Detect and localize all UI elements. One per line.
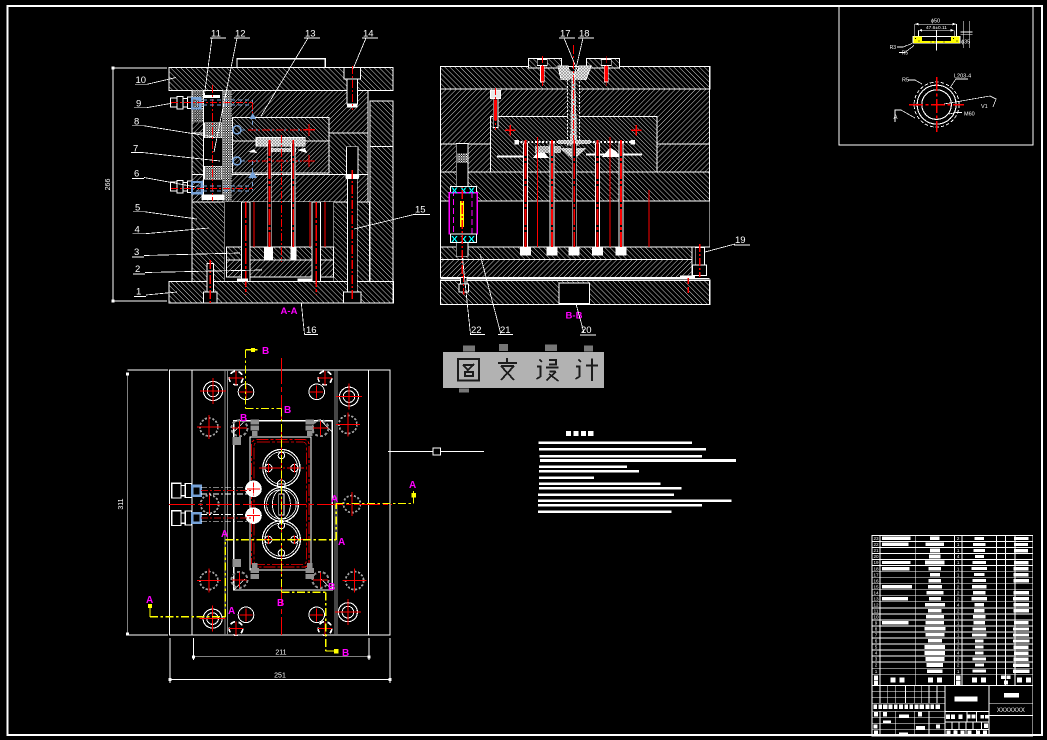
top boss xyxy=(237,59,325,68)
long side bolt xyxy=(344,147,361,303)
svg-text:1: 1 xyxy=(957,639,960,644)
sprue bushing xyxy=(568,45,580,205)
cavity pocket BB xyxy=(490,117,657,173)
watermark char wen xyxy=(498,358,517,380)
svg-text:2: 2 xyxy=(957,590,960,595)
left rail xyxy=(192,202,224,281)
support plate xyxy=(192,175,368,203)
dim 311 xyxy=(118,370,168,636)
molded part cavity xyxy=(193,91,308,154)
ring leaders xyxy=(894,74,997,123)
inner screw circles xyxy=(238,384,324,623)
support pillar right xyxy=(312,202,321,294)
cooling line cavity 1 xyxy=(233,124,315,136)
svg-text:A: A xyxy=(228,606,235,617)
callout 4 xyxy=(133,225,210,236)
svg-text:A: A xyxy=(331,494,338,505)
svg-text:2: 2 xyxy=(135,264,140,275)
svg-text:1: 1 xyxy=(957,548,960,553)
svg-text:2: 2 xyxy=(957,584,960,589)
svg-text:M60: M60 xyxy=(964,112,975,118)
plan red centerlines xyxy=(169,358,392,635)
dim phi50 xyxy=(915,19,957,37)
cavity cooling circuit xyxy=(250,437,311,570)
ejector retainer BB xyxy=(441,247,692,260)
bottom plate screw xyxy=(203,260,217,303)
callout 9 xyxy=(134,99,172,110)
ring screw left xyxy=(537,56,547,86)
gray hatched circles xyxy=(197,413,367,593)
plan inner vertical lines xyxy=(192,370,368,635)
svg-text:B: B xyxy=(342,648,349,659)
callout 11 xyxy=(204,29,226,99)
svg-text:3: 3 xyxy=(875,657,878,662)
callout 17 xyxy=(559,29,578,73)
svg-text:20: 20 xyxy=(873,554,879,559)
title block xyxy=(872,686,1033,737)
svg-text:1: 1 xyxy=(957,669,960,674)
svg-text:5: 5 xyxy=(875,645,878,650)
BOM table grid xyxy=(872,536,1033,686)
svg-text:R3: R3 xyxy=(890,45,897,51)
ring circles xyxy=(914,82,959,127)
cavity insert pocket xyxy=(233,118,330,142)
water channel dashed xyxy=(201,487,254,521)
right rail xyxy=(334,202,370,281)
core insert pocket xyxy=(233,141,330,173)
4-lobe screw circles xyxy=(229,371,332,636)
svg-text:ϕ35: ϕ35 xyxy=(961,40,970,46)
svg-text:A: A xyxy=(409,480,416,491)
svg-text:B: B xyxy=(284,405,291,416)
big circle middle xyxy=(264,487,298,521)
left small bolt BB xyxy=(459,274,469,295)
svg-text:13: 13 xyxy=(873,596,879,601)
callout 8 xyxy=(132,117,214,138)
svg-text:L203-4: L203-4 xyxy=(954,74,971,80)
callout 15 xyxy=(354,205,430,230)
callout 18 xyxy=(574,29,594,78)
dim 47.6 xyxy=(919,25,955,36)
detail view box xyxy=(839,7,1033,146)
svg-text:19: 19 xyxy=(735,235,746,246)
svg-text:15: 15 xyxy=(415,205,426,216)
locating ring left xyxy=(528,58,561,68)
svg-text:8: 8 xyxy=(875,627,878,632)
BOM header row xyxy=(874,675,1031,685)
svg-text:1: 1 xyxy=(957,572,960,577)
svg-text:4: 4 xyxy=(957,651,960,656)
title block texts xyxy=(873,693,1019,736)
svg-text:17: 17 xyxy=(873,572,879,577)
bottom clamp plate BB xyxy=(441,280,710,304)
A plate xyxy=(192,91,368,134)
ring screw right xyxy=(601,56,611,86)
dim 211 xyxy=(192,638,371,660)
ejector retainer plate xyxy=(227,247,334,260)
big circle bottom xyxy=(259,521,304,559)
callout 2 xyxy=(133,264,262,275)
plan gray double lines xyxy=(225,370,337,635)
plan water fittings xyxy=(172,483,201,525)
ejector pin 2 xyxy=(290,140,296,260)
support column above cylinder xyxy=(456,144,468,187)
svg-text:1: 1 xyxy=(957,621,960,626)
callout 14 xyxy=(353,29,378,70)
callout 12 xyxy=(214,29,250,153)
label B-B xyxy=(566,311,583,322)
svg-text:266: 266 xyxy=(105,179,112,191)
top plate screw xyxy=(344,66,361,110)
locating ring section (yellow) xyxy=(913,30,960,51)
svg-text:14: 14 xyxy=(873,590,879,595)
svg-text:2: 2 xyxy=(957,536,960,541)
top clamp plate xyxy=(169,67,393,90)
svg-text:2: 2 xyxy=(957,645,960,650)
svg-text:B: B xyxy=(262,346,269,357)
callout 13 xyxy=(261,29,320,117)
svg-text:251: 251 xyxy=(274,672,286,679)
label A-A xyxy=(281,306,298,317)
svg-text:1: 1 xyxy=(875,669,878,674)
svg-text:19: 19 xyxy=(873,560,879,565)
ring crosshair red xyxy=(909,77,964,132)
dim 251 xyxy=(169,638,392,683)
svg-text:2: 2 xyxy=(957,596,960,601)
svg-text:A: A xyxy=(146,595,153,606)
watermark char tu xyxy=(458,359,479,381)
bottom plate pads xyxy=(237,278,312,281)
gate area speckle xyxy=(497,140,642,160)
svg-text:ϕ50: ϕ50 xyxy=(931,19,940,25)
svg-text:21: 21 xyxy=(873,548,879,553)
callout 22 xyxy=(463,258,486,336)
B plate BB xyxy=(441,144,710,172)
top clamp plate BB xyxy=(441,67,710,89)
ejector pin 1 xyxy=(264,140,273,260)
callout 1 xyxy=(134,287,177,298)
callout 6 xyxy=(132,169,196,188)
svg-text:2: 2 xyxy=(957,609,960,614)
cavity insert rect xyxy=(234,421,332,590)
svg-text:R5: R5 xyxy=(902,78,909,84)
ejector base BB xyxy=(441,259,692,277)
callout 16 xyxy=(301,303,318,336)
support cylinder magenta xyxy=(449,145,477,283)
watermark char ji xyxy=(576,359,599,382)
ejector base plate xyxy=(227,260,334,277)
support pillar left xyxy=(242,202,251,294)
dim 266 xyxy=(105,67,167,303)
svg-text:22: 22 xyxy=(873,542,879,547)
callout 21 xyxy=(480,254,513,336)
tech requirements heading xyxy=(566,431,593,436)
svg-text:1: 1 xyxy=(957,615,960,620)
svg-text:18: 18 xyxy=(873,566,879,571)
B plate xyxy=(192,133,368,175)
callout 7 xyxy=(131,144,220,162)
svg-text:9: 9 xyxy=(875,621,878,626)
svg-text:211: 211 xyxy=(275,650,286,657)
svg-text:B: B xyxy=(328,582,335,593)
svg-text:23: 23 xyxy=(873,536,879,541)
svg-text:6: 6 xyxy=(875,639,878,644)
bottom clamp plate xyxy=(169,281,393,303)
left water fitting 1 xyxy=(170,97,200,109)
sprue center line xyxy=(281,135,283,262)
watermark char she xyxy=(537,360,559,382)
svg-text:A-A: A-A xyxy=(281,306,298,317)
callout 20 xyxy=(576,304,596,336)
svg-text:A: A xyxy=(338,537,345,548)
callout 3 xyxy=(132,247,240,258)
svg-text:R5: R5 xyxy=(902,51,909,57)
ejector space xyxy=(225,202,334,281)
A plate screw BB xyxy=(490,88,500,130)
sprue funnel xyxy=(558,66,591,80)
cooling port circles xyxy=(246,481,262,523)
cooling line upper xyxy=(171,100,256,130)
svg-text:12: 12 xyxy=(873,602,879,607)
extra red pins xyxy=(254,202,325,247)
BB ejector pins xyxy=(520,137,649,255)
svg-text:16: 16 xyxy=(873,578,879,583)
left water fitting 2 xyxy=(170,181,201,194)
svg-text:47.6±0.11: 47.6±0.11 xyxy=(926,25,947,31)
svg-text:4: 4 xyxy=(875,651,878,656)
right small bolt BB xyxy=(680,244,707,295)
svg-text:V1: V1 xyxy=(981,104,988,110)
watermark fragments above xyxy=(459,344,593,393)
right small dims xyxy=(961,21,973,48)
svg-text:XXXXXXX: XXXXXXX xyxy=(997,708,1025,714)
callout 10 xyxy=(135,75,176,86)
tech requirement text bars xyxy=(538,442,736,514)
cooling line lower xyxy=(171,186,253,191)
svg-text:B: B xyxy=(240,413,247,424)
svg-text:1: 1 xyxy=(957,627,960,632)
svg-text:3: 3 xyxy=(134,247,139,258)
support plate BB xyxy=(441,172,710,201)
right notch BB xyxy=(0,0,1,1)
A plate BB xyxy=(441,89,710,144)
svg-text:311: 311 xyxy=(118,498,125,509)
svg-text:4: 4 xyxy=(957,554,960,559)
svg-text:1: 1 xyxy=(957,560,960,565)
right side column xyxy=(370,101,393,293)
ejector space BB xyxy=(441,201,710,247)
svg-text:1: 1 xyxy=(957,578,960,583)
runner circles xyxy=(277,452,285,556)
svg-text:A: A xyxy=(221,529,228,540)
svg-text:1: 1 xyxy=(957,633,960,638)
thin gap line BB xyxy=(441,278,710,280)
plan plate outline xyxy=(170,370,391,635)
svg-text:2: 2 xyxy=(957,657,960,662)
svg-text:11: 11 xyxy=(874,609,879,614)
callout 19 xyxy=(705,235,750,252)
guide holes white xyxy=(200,378,362,632)
guide pillar column xyxy=(202,85,232,201)
svg-text:6: 6 xyxy=(134,169,139,180)
svg-text:1: 1 xyxy=(957,542,960,547)
svg-text:15: 15 xyxy=(873,584,879,589)
svg-text:B: B xyxy=(277,598,284,609)
side leader with square xyxy=(388,448,484,455)
svg-text:2: 2 xyxy=(875,663,878,668)
callout 5 xyxy=(133,203,197,220)
watermark box xyxy=(443,352,604,388)
big circle top xyxy=(259,449,304,486)
gray hex circles xyxy=(231,420,328,588)
svg-text:10: 10 xyxy=(873,615,879,620)
svg-text:4: 4 xyxy=(957,602,960,607)
svg-text:1: 1 xyxy=(957,566,960,571)
svg-text:1: 1 xyxy=(136,287,141,298)
svg-text:2: 2 xyxy=(957,663,960,668)
BOM rows text xyxy=(873,536,1029,674)
section line A yellow xyxy=(146,480,416,617)
svg-text:7: 7 xyxy=(875,633,878,638)
locating ring right xyxy=(587,58,620,68)
cooling line cavity 2 xyxy=(233,155,315,190)
leader R3 R5 xyxy=(890,44,914,57)
red cross marks BB xyxy=(505,125,642,136)
corner elbow fittings xyxy=(233,420,315,580)
svg-text:A: A xyxy=(894,115,898,121)
section line B yellow xyxy=(240,346,349,659)
